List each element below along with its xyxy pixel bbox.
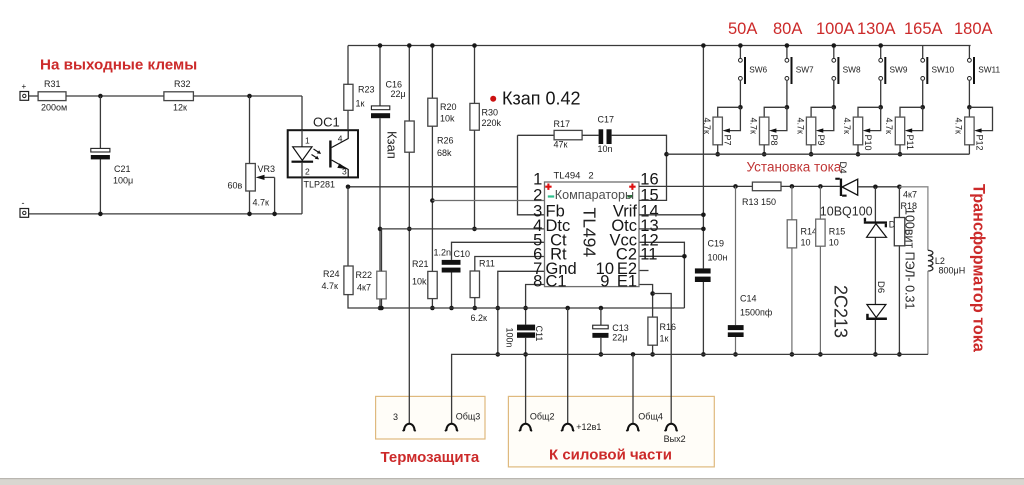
node D5 top — [873, 185, 878, 190]
svg-text:P9: P9 — [816, 135, 826, 146]
wire pin13 Otc to branch — [639, 228, 703, 230]
caption: На выходные клемы — [40, 57, 197, 74]
svg-text:R11: R11 — [479, 259, 495, 269]
svg-text:8: 8 — [533, 273, 542, 291]
node pin7 wire on lower rail — [496, 306, 501, 311]
node SW11 to P12 — [967, 105, 972, 110]
wire pin10 E2 stub — [639, 270, 649, 272]
node VR3 wiper on minus rail — [272, 212, 277, 217]
svg-text:R16: R16 — [660, 322, 677, 332]
caption 100A — [816, 20, 855, 38]
node +12в1 on lower rail — [565, 306, 570, 311]
wire lower rail y308 — [348, 295, 684, 308]
wire D4 to transformer node — [858, 186, 900, 188]
wire R22 bottom — [381, 299, 383, 308]
svg-text:4.7к: 4.7к — [884, 118, 894, 135]
node VR3 bottom on minus rail — [247, 212, 252, 217]
svg-text:2: 2 — [305, 167, 310, 177]
svg-text:Общ3: Общ3 — [456, 412, 481, 422]
connector pin Общ3 — [445, 412, 480, 432]
node junction R32/VR3 — [247, 94, 252, 99]
caption 80A — [773, 20, 802, 38]
node R18 top — [897, 185, 902, 190]
node C16 line on lower rail — [378, 306, 383, 311]
svg-text:-: - — [22, 198, 25, 208]
svg-text:10: 10 — [801, 238, 811, 248]
diode D5 (zener) — [864, 218, 901, 238]
connector pin Вых2 — [664, 424, 686, 444]
node C10 on lower rail — [449, 306, 454, 311]
label 2C213 — [831, 285, 851, 338]
svg-text:Общ4: Общ4 — [638, 412, 663, 422]
connector box К силовой части — [508, 396, 714, 467]
wire pin14 Vrif to branch — [639, 214, 703, 216]
svg-text:P7: P7 — [723, 135, 733, 146]
wire R22 top to pin4 rail — [381, 229, 383, 271]
svg-text:C17: C17 — [598, 115, 615, 125]
svg-text:3: 3 — [393, 412, 398, 422]
wire R15 vertical — [819, 186, 821, 354]
svg-text:+12в1: +12в1 — [576, 422, 601, 432]
wire pin9 node down to Вых2 connector — [653, 294, 672, 424]
resistor R13 — [742, 182, 781, 207]
capacitor C16 — [371, 80, 406, 119]
wire +12в1 down to connector — [567, 308, 569, 423]
node junction R31/C21 — [98, 94, 103, 99]
wire pin4 Dtc rail — [380, 228, 545, 230]
wire pin5 Ct to C10 — [452, 242, 545, 260]
svg-text:R31: R31 — [44, 79, 61, 89]
svg-text:C16: C16 — [386, 80, 403, 90]
node SW10 to P11 — [920, 105, 925, 110]
caption: Установка тока — [747, 160, 842, 175]
node C11 line on lower rail — [523, 306, 528, 311]
node pin11 on Vcc path — [682, 254, 687, 259]
resistor R31 — [38, 79, 67, 113]
svg-text:100μ: 100μ — [113, 176, 133, 186]
caption 50A — [728, 20, 757, 38]
svg-text:10k: 10k — [440, 114, 455, 124]
wire VR3 vertical — [249, 96, 251, 214]
caption: Термозащита — [381, 449, 480, 466]
svg-text:1500пф: 1500пф — [740, 308, 773, 318]
svg-text:Кзап: Кзап — [385, 131, 400, 159]
node SW6 on top bus — [738, 43, 743, 48]
potentiometer P11 — [884, 107, 923, 154]
resistor R17 — [554, 119, 583, 150]
switch SW11 — [968, 46, 1001, 108]
wire OC1 pin3 to feedback node — [348, 186, 518, 188]
svg-text:+: + — [22, 82, 27, 91]
resistor R21 — [412, 259, 437, 299]
wire Кзап branch vertical to thermal connector — [408, 46, 410, 424]
svg-text:SW8: SW8 — [843, 65, 861, 75]
svg-text:1к: 1к — [356, 99, 365, 109]
wire D5-D6 vertical — [874, 187, 876, 355]
wire R23 to top bus — [347, 46, 349, 85]
node C14 on pin16 rail — [733, 184, 738, 189]
svg-text:P12: P12 — [974, 135, 984, 151]
switch SW6 — [739, 46, 768, 108]
svg-text:800μH: 800μH — [939, 266, 966, 276]
node R11 on lower rail — [473, 306, 478, 311]
node SW7 on top bus — [785, 43, 790, 48]
svg-text:4.7к: 4.7к — [748, 118, 758, 135]
optocoupler OC1 TLP281 — [288, 115, 358, 190]
node P10 on pot bus — [856, 152, 861, 157]
svg-text:D6: D6 — [875, 281, 886, 293]
svg-text:Трансформатор тока: Трансформатор тока — [970, 184, 988, 353]
wire top supply bus — [348, 45, 971, 47]
node C14 on bottom bus — [733, 352, 738, 357]
node SW7 to P8 — [785, 105, 790, 110]
resistor R24 — [322, 266, 354, 295]
node P8 on pot bus — [762, 152, 767, 157]
caption: Трансформатор тока (vertical) — [970, 184, 988, 353]
wire R16 bottom — [652, 345, 654, 354]
svg-text:C19: C19 — [708, 239, 725, 249]
wire pin11 C2 to Vcc path — [639, 255, 684, 257]
wire R30 branch vertical — [474, 46, 476, 229]
svg-text:Кзап 0.42: Кзап 0.42 — [502, 89, 581, 109]
node R15 on bottom bus — [818, 352, 823, 357]
svg-text:Термозащита: Термозащита — [381, 449, 480, 466]
svg-text:L2: L2 — [935, 256, 945, 266]
svg-text:SW7: SW7 — [796, 65, 814, 75]
svg-text:C11: C11 — [534, 326, 544, 342]
svg-text:R22: R22 — [356, 270, 373, 280]
node R30 / pin4 wire — [472, 227, 477, 232]
node pin9/R16/Вых2 — [650, 291, 655, 296]
node pin13 junction — [701, 227, 706, 232]
svg-text:22μ: 22μ — [391, 89, 406, 99]
resistor R32 — [164, 79, 194, 113]
wire OC1 pin2 down to minus rail — [301, 177, 303, 214]
node SW9 to P10 — [878, 105, 883, 110]
wire Общ4 down to connector — [632, 354, 634, 423]
svg-text:6.2к: 6.2к — [471, 313, 488, 323]
svg-text:SW10: SW10 — [932, 65, 955, 75]
wire R13 to D4 — [781, 185, 840, 187]
svg-text:C1: C1 — [546, 273, 567, 291]
svg-text:4.7к: 4.7к — [795, 118, 805, 135]
red dot Кзап marker — [490, 96, 496, 102]
svg-text:C13: C13 — [612, 323, 629, 333]
switch SW9 — [879, 46, 908, 108]
label 10BQ100 — [820, 205, 873, 219]
svg-text:VR3: VR3 — [258, 164, 276, 174]
wire OC1 pin3 node down to R24 — [347, 187, 349, 266]
potentiometer P9 — [795, 107, 834, 154]
svg-text:R32: R32 — [174, 79, 191, 89]
wire C11 down to Общ2 connector — [525, 338, 527, 423]
svg-text:R17: R17 — [554, 119, 571, 129]
wire C16 branch vertical — [379, 46, 381, 309]
wire R11 bottom to lower rail — [474, 298, 476, 308]
switch SW8 — [832, 46, 861, 108]
svg-text:100n: 100n — [505, 328, 515, 348]
wire feedback node to pin3 Fb — [518, 135, 545, 215]
node pin15/C17/pot bus — [664, 152, 669, 157]
inductor L2 current transformer winding — [899, 187, 965, 355]
node SW8 on top bus — [832, 43, 837, 48]
node D6 on bottom bus — [873, 352, 878, 357]
svg-text:E1: E1 — [617, 273, 637, 291]
node R20/R21 to TL494 pin2 — [430, 198, 435, 203]
svg-text:180A: 180A — [954, 20, 993, 38]
wire R31 to R32 — [66, 95, 164, 97]
svg-text:1к: 1к — [660, 334, 669, 344]
label R26 68k — [437, 136, 454, 159]
svg-text:68k: 68k — [437, 148, 452, 158]
capacitor C21 — [91, 148, 133, 185]
svg-text:TLP281: TLP281 — [304, 180, 336, 190]
terminal - (output clamp minus) — [20, 198, 29, 217]
node R22 on lower rail — [379, 306, 384, 311]
svg-text:4к7: 4к7 — [357, 283, 371, 293]
connector pin +12в1 — [561, 422, 601, 432]
node Кзап branch on top bus — [407, 43, 412, 48]
potentiometer P12 — [954, 107, 993, 154]
node C13 on bottom bus — [599, 352, 604, 357]
svg-text:P8: P8 — [769, 135, 779, 146]
node C21 bottom on minus rail — [98, 212, 103, 217]
svg-text:R21: R21 — [412, 259, 429, 269]
node Кзап branch / pin4 wire — [407, 227, 412, 232]
connector pin Общ2 — [519, 412, 554, 432]
svg-text:R30: R30 — [482, 108, 499, 118]
svg-text:100вит ПЭЛ- 0.31: 100вит ПЭЛ- 0.31 — [903, 208, 917, 309]
svg-text:10BQ100: 10BQ100 — [820, 205, 873, 219]
svg-text:Вых2: Вых2 — [664, 434, 686, 444]
svg-text:C10: C10 — [454, 249, 471, 259]
svg-text:TL494 2: TL494 2 — [554, 171, 594, 182]
IC U1 pin numbers — [533, 171, 659, 291]
node P7 on pot bus — [715, 152, 720, 157]
svg-text:4.7к: 4.7к — [842, 118, 852, 135]
node R16 on bottom bus — [650, 352, 655, 357]
svg-text:4.7к: 4.7к — [322, 281, 339, 291]
wire pin9 E1 to R16 — [639, 285, 653, 318]
svg-text:22μ: 22μ — [612, 333, 627, 343]
svg-text:47к: 47к — [554, 140, 568, 150]
svg-text:1.2n: 1.2n — [434, 247, 452, 257]
svg-text:R24: R24 — [323, 269, 340, 279]
capacitor C13 — [592, 308, 628, 354]
svg-text:R20: R20 — [440, 102, 457, 112]
svg-text:50A: 50A — [728, 20, 757, 38]
svg-text:TL494: TL494 — [580, 208, 600, 258]
node R14 top — [790, 184, 795, 189]
wire bottom minus rail — [29, 213, 302, 215]
capacitor C17 — [598, 115, 615, 155]
connector pin Общ4 — [626, 412, 662, 432]
svg-text:165A: 165A — [904, 20, 943, 38]
potentiometer P8 — [748, 107, 787, 154]
svg-text:10n: 10n — [598, 144, 613, 154]
node C16 on top bus — [378, 43, 383, 48]
potentiometer P10 — [842, 107, 881, 154]
node P11 on pot bus — [898, 152, 903, 157]
svg-text:OC1: OC1 — [313, 115, 340, 130]
wire C14 vertical — [735, 186, 737, 354]
wire pin16 to R13 — [639, 185, 752, 187]
svg-text:10k: 10k — [412, 277, 427, 287]
caption 180A — [954, 20, 993, 38]
capacitor C10 — [434, 247, 471, 272]
svg-text:10: 10 — [829, 238, 839, 248]
svg-text:R26: R26 — [437, 136, 454, 146]
bottom window edge strip — [0, 478, 1024, 485]
wire C10 bottom to lower rail — [451, 273, 453, 309]
node R14 on bottom bus — [790, 352, 795, 357]
svg-text:100A: 100A — [816, 20, 855, 38]
wire stub — [381, 186, 383, 188]
connector pin 3 (thermal) — [393, 412, 416, 431]
diode D6 (zener) — [866, 281, 887, 320]
wire pin6 Rt to R11 — [475, 257, 545, 272]
svg-text:130A: 130A — [857, 20, 896, 38]
node pin14 junction — [701, 213, 706, 218]
switch SW7 — [785, 46, 814, 108]
wire R14 vertical — [791, 186, 793, 354]
resistor R30 — [470, 103, 502, 130]
svg-text:R15: R15 — [829, 227, 846, 237]
svg-text:P11: P11 — [905, 135, 915, 150]
wire bottom bus — [452, 354, 928, 423]
resistor R14 — [787, 220, 817, 248]
svg-text:На выходные клемы: На выходные клемы — [40, 57, 197, 74]
label Кзап 0.42 — [502, 89, 581, 109]
resistor R23 — [344, 84, 375, 110]
resistor R16 — [648, 317, 676, 345]
node P9 on pot bus — [809, 152, 814, 157]
svg-text:1: 1 — [305, 136, 310, 146]
resistor Кзап (duty-cycle set) — [385, 121, 415, 159]
caption: К силовой части — [549, 447, 672, 464]
svg-text:К силовой части: К силовой части — [549, 447, 672, 464]
svg-text:4.7к: 4.7к — [253, 198, 270, 208]
wire R32 to OC1 pin1 — [193, 96, 302, 130]
svg-text:9: 9 — [600, 273, 614, 291]
connector box Термозащита — [376, 396, 485, 439]
node R18 on bottom bus — [897, 352, 902, 357]
terminal + (output clamp plus) — [20, 82, 29, 100]
wire C21 vertical — [99, 96, 101, 214]
caption 130A — [857, 20, 896, 38]
wire R18 vertical — [898, 187, 900, 355]
resistor R22 — [356, 270, 387, 299]
svg-text:SW11: SW11 — [978, 65, 1000, 75]
svg-text:C14: C14 — [740, 294, 757, 304]
capacitor C14 — [728, 294, 773, 338]
wire R17 to C17 — [582, 134, 599, 136]
wire C17 to pin15 node — [612, 135, 667, 200]
svg-text:R14: R14 — [801, 227, 818, 237]
node Общ4 on bottom bus — [631, 352, 636, 357]
svg-text:200ом: 200ом — [41, 103, 67, 113]
svg-text:Установка тока: Установка тока — [747, 160, 842, 175]
wire pin2 to R20/R21 divider — [432, 200, 544, 202]
svg-text:4к7: 4к7 — [903, 190, 917, 200]
wire pin7 Gnd down to bottom bus — [498, 271, 545, 354]
svg-text:R13 150: R13 150 — [742, 197, 776, 207]
svg-text:100н: 100н — [708, 253, 728, 263]
svg-text:12к: 12к — [173, 103, 187, 113]
wire OC1 pin4 up to R23 — [347, 110, 349, 130]
node Vref branch on top bus — [701, 43, 706, 48]
svg-text:80A: 80A — [773, 20, 802, 38]
svg-text:60в: 60в — [228, 181, 243, 191]
node C16 line / TL494 pin4 wire — [378, 227, 383, 232]
wire feedback to R17 — [518, 134, 555, 136]
node C11 on bottom bus — [523, 352, 528, 357]
svg-text:11: 11 — [640, 246, 657, 264]
node C19 on bottom bus — [701, 352, 706, 357]
caption 165A — [904, 20, 943, 38]
diode D4 (zener) — [835, 162, 857, 197]
svg-text:D4: D4 — [837, 162, 848, 174]
wire terminal+ to R1 — [29, 95, 38, 97]
wire pin12 Vcc path — [639, 242, 684, 308]
svg-text:220k: 220k — [482, 118, 502, 128]
IC U1 TL494 — [545, 171, 640, 291]
svg-text:R23: R23 — [358, 85, 375, 95]
svg-text:P10: P10 — [863, 135, 873, 151]
node C13 on lower rail — [599, 306, 604, 311]
wire pin8 C1 to C11 — [526, 285, 545, 325]
node OC1 pin3 junction — [346, 185, 351, 190]
node SW9 on top bus — [878, 43, 883, 48]
node SW8 to P9 — [832, 105, 837, 110]
svg-text:Компараторы: Компараторы — [555, 188, 634, 202]
node R30 on top bus — [472, 43, 477, 48]
svg-text:Общ2: Общ2 — [530, 412, 555, 422]
node R20 on top bus — [430, 43, 435, 48]
switch SW10 — [921, 46, 955, 108]
capacitor C11 — [505, 325, 545, 348]
wire R20-R21 branch vertical — [431, 46, 433, 309]
svg-text:SW6: SW6 — [749, 65, 767, 75]
node R15 top — [818, 184, 823, 189]
wire pot bottom bus — [667, 153, 970, 155]
svg-text:4.7к: 4.7к — [702, 118, 712, 135]
potentiometer P7 — [702, 107, 741, 154]
node SW6 to P7 — [738, 105, 743, 110]
svg-text:SW9: SW9 — [890, 65, 908, 75]
svg-text:4.7к: 4.7к — [954, 118, 964, 135]
wire Vref branch C19 vertical — [702, 46, 704, 355]
node R21 bottom on lower rail — [430, 306, 435, 311]
potentiometer VR3 — [228, 164, 276, 214]
svg-text:2C213: 2C213 — [831, 285, 851, 338]
resistor R18 — [894, 190, 917, 246]
resistor R11 — [470, 259, 495, 324]
node pin7 wire on bottom bus — [496, 352, 501, 357]
resistor R15 — [816, 219, 846, 247]
svg-text:C21: C21 — [114, 164, 131, 174]
resistor R20 — [428, 98, 457, 126]
capacitor C19 — [695, 239, 728, 283]
